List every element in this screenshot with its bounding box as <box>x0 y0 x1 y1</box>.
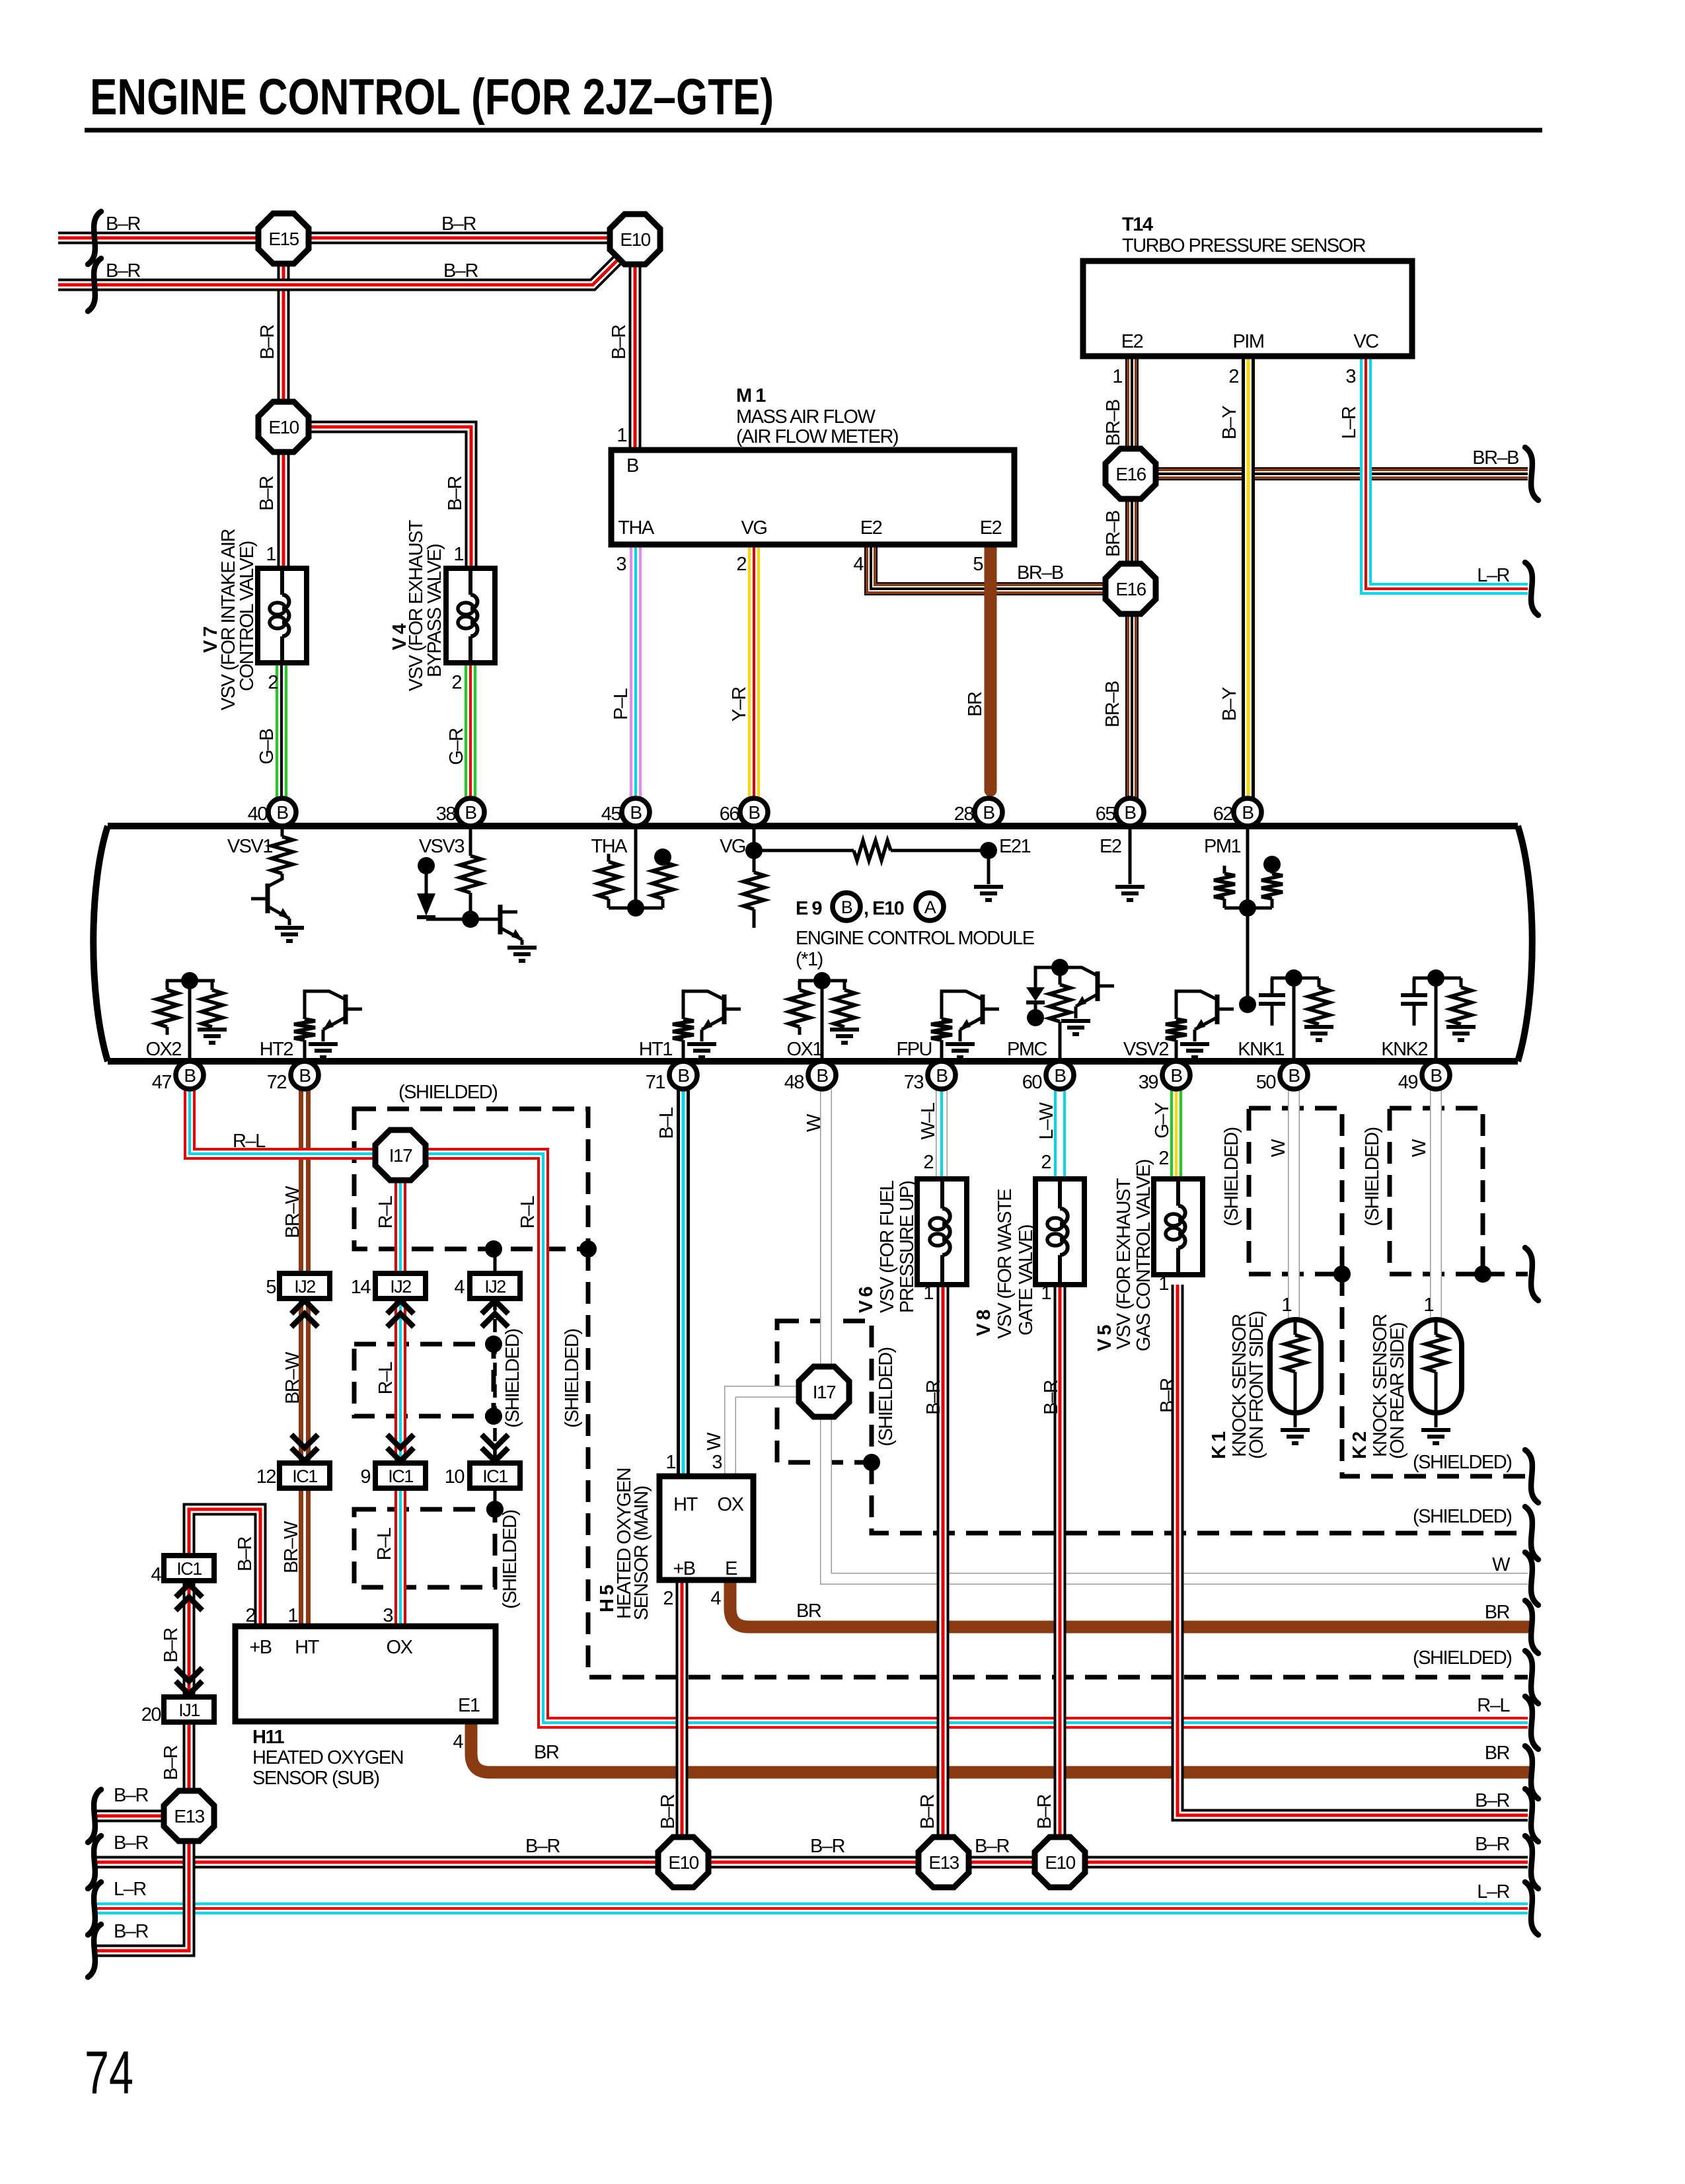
svg-text:2: 2 <box>245 1605 255 1626</box>
svg-text:B: B <box>748 802 760 823</box>
svg-text:2: 2 <box>268 672 278 693</box>
svg-text:M 1: M 1 <box>736 385 766 406</box>
svg-text:B–R: B–R <box>161 1628 182 1662</box>
svg-text:E21: E21 <box>999 836 1030 857</box>
svg-text:40: 40 <box>248 804 268 825</box>
svg-text:1: 1 <box>1158 1273 1168 1295</box>
svg-text:B–R: B–R <box>657 1794 679 1828</box>
svg-text:BR: BR <box>796 1600 821 1622</box>
svg-text:H11: H11 <box>252 1727 284 1748</box>
svg-text:1: 1 <box>266 544 276 565</box>
svg-text:2: 2 <box>1041 1152 1051 1173</box>
svg-text:W: W <box>804 1113 825 1132</box>
svg-text:12: 12 <box>256 1466 276 1487</box>
svg-text:39: 39 <box>1139 1072 1158 1093</box>
svg-text:IJ2: IJ2 <box>294 1277 315 1297</box>
svg-text:FPU: FPU <box>897 1039 932 1060</box>
svg-text:B: B <box>1124 802 1136 823</box>
svg-text:V 8: V 8 <box>973 1310 994 1336</box>
svg-text:VSV1: VSV1 <box>227 836 273 857</box>
svg-text:B–R: B–R <box>106 260 140 282</box>
svg-text:B: B <box>465 802 476 823</box>
svg-text:10: 10 <box>445 1466 465 1487</box>
svg-text:GATE VALVE): GATE VALVE) <box>1016 1225 1037 1336</box>
svg-text:B–R: B–R <box>810 1836 844 1857</box>
svg-text:L–R: L–R <box>1477 565 1509 586</box>
svg-text:(*1): (*1) <box>796 949 823 970</box>
svg-text:B–R: B–R <box>106 213 140 235</box>
svg-text:B–R: B–R <box>235 1536 256 1571</box>
svg-text:A: A <box>924 897 936 917</box>
svg-text:PRESSURE UP): PRESSURE UP) <box>897 1181 918 1313</box>
svg-text:BR–B: BR–B <box>1472 447 1518 469</box>
svg-text:HEATED OXYGEN: HEATED OXYGEN <box>252 1747 403 1768</box>
svg-text:IC1: IC1 <box>292 1466 317 1486</box>
svg-text:IC1: IC1 <box>388 1466 413 1486</box>
svg-text:W: W <box>1409 1139 1430 1157</box>
svg-text:1: 1 <box>1423 1295 1433 1316</box>
svg-text:E2: E2 <box>860 517 882 539</box>
svg-text:BR–W: BR–W <box>282 1186 303 1238</box>
svg-text:B: B <box>983 802 994 823</box>
svg-text:E2: E2 <box>1100 836 1121 857</box>
svg-text:VSV2: VSV2 <box>1123 1039 1169 1060</box>
svg-text:(SHIELDED): (SHIELDED) <box>1362 1127 1383 1226</box>
svg-text:65: 65 <box>1096 804 1115 825</box>
svg-text:BR: BR <box>965 692 986 717</box>
svg-text:B: B <box>626 455 638 476</box>
svg-text:B–R: B–R <box>257 324 278 359</box>
svg-text:E10: E10 <box>668 1852 698 1873</box>
svg-text:B–R: B–R <box>114 1785 148 1806</box>
svg-text:4: 4 <box>853 554 864 575</box>
svg-text:KNK2: KNK2 <box>1381 1039 1427 1060</box>
svg-text:B: B <box>841 897 852 917</box>
svg-text:B–R: B–R <box>525 1836 560 1857</box>
svg-text:HT2: HT2 <box>260 1039 293 1060</box>
svg-text:R–L: R–L <box>1477 1695 1510 1716</box>
svg-text:OX: OX <box>387 1637 413 1658</box>
svg-text:(SHIELDED): (SHIELDED) <box>1413 1452 1511 1473</box>
svg-text:B–R: B–R <box>256 476 278 510</box>
svg-text:E1: E1 <box>458 1695 480 1716</box>
svg-text:VSV3: VSV3 <box>419 836 465 857</box>
svg-text:5: 5 <box>973 554 983 575</box>
svg-text:2: 2 <box>923 1152 933 1173</box>
svg-text:R–L: R–L <box>375 1361 396 1394</box>
svg-text:R–L: R–L <box>374 1527 395 1560</box>
svg-text:28: 28 <box>954 804 974 825</box>
svg-text:2: 2 <box>736 554 746 575</box>
svg-text:MASS AIR FLOW: MASS AIR FLOW <box>736 406 876 428</box>
svg-text:Y–R: Y–R <box>729 687 750 721</box>
svg-text:V 5: V 5 <box>1094 1325 1115 1351</box>
svg-text:(AIR FLOW METER): (AIR FLOW METER) <box>736 426 898 447</box>
svg-text:5: 5 <box>266 1277 276 1298</box>
svg-text:VG: VG <box>741 517 767 539</box>
svg-text:BYPASS VALVE): BYPASS VALVE) <box>424 545 445 677</box>
svg-text:B–R: B–R <box>1157 1378 1178 1412</box>
svg-text:B: B <box>299 1065 311 1086</box>
svg-text:E: E <box>725 1558 737 1579</box>
svg-text:1: 1 <box>453 544 463 565</box>
svg-text:ENGINE CONTROL MODULE: ENGINE CONTROL MODULE <box>796 928 1035 949</box>
svg-text:(SHIELDED): (SHIELDED) <box>398 1082 497 1103</box>
svg-text:B–R: B–R <box>1041 1380 1062 1414</box>
svg-text:48: 48 <box>784 1072 804 1093</box>
svg-text:B: B <box>1430 1065 1442 1086</box>
svg-text:VG: VG <box>720 836 745 857</box>
svg-text:49: 49 <box>1398 1072 1418 1093</box>
svg-text:E13: E13 <box>174 1806 204 1826</box>
svg-text:38: 38 <box>436 804 456 825</box>
svg-text:L–R: L–R <box>1477 1881 1509 1902</box>
svg-text:R–L: R–L <box>517 1195 539 1228</box>
svg-text:B–Y: B–Y <box>1219 406 1240 439</box>
svg-text:PMC: PMC <box>1007 1039 1047 1060</box>
svg-text:+B: +B <box>249 1637 271 1658</box>
svg-text:E2: E2 <box>980 517 1002 539</box>
svg-text:B: B <box>936 1065 948 1086</box>
svg-text:1: 1 <box>1281 1295 1291 1316</box>
svg-text:(SHIELDED): (SHIELDED) <box>1413 1647 1511 1669</box>
svg-text:72: 72 <box>267 1072 287 1093</box>
svg-text:4: 4 <box>453 1731 463 1752</box>
svg-text:1: 1 <box>617 425 626 446</box>
svg-text:50: 50 <box>1256 1072 1276 1093</box>
svg-text:E10: E10 <box>1045 1852 1075 1873</box>
svg-text:BR: BR <box>534 1742 559 1763</box>
svg-text:2: 2 <box>451 672 461 693</box>
svg-text:(ON FRONT SIDE): (ON FRONT SIDE) <box>1246 1312 1267 1459</box>
svg-text:G–R: G–R <box>446 728 467 765</box>
svg-text:VSV (FOR WASTE: VSV (FOR WASTE <box>994 1189 1016 1339</box>
svg-text:B: B <box>630 802 642 823</box>
svg-text:1: 1 <box>923 1283 933 1304</box>
svg-text:B–R: B–R <box>609 324 630 359</box>
svg-text:E10: E10 <box>268 417 299 437</box>
svg-text:E16: E16 <box>1115 579 1146 599</box>
svg-text:BR–W: BR–W <box>281 1521 302 1573</box>
svg-text:4: 4 <box>710 1588 721 1609</box>
svg-text:G–B: G–B <box>256 729 278 765</box>
svg-text:(SHIELDED): (SHIELDED) <box>502 1329 523 1427</box>
svg-text:(SHIELDED): (SHIELDED) <box>1221 1127 1242 1226</box>
svg-text:B–R: B–R <box>161 1745 182 1780</box>
svg-text:74: 74 <box>85 2039 133 2107</box>
svg-text:, E10: , E10 <box>864 898 904 919</box>
svg-text:45: 45 <box>601 804 621 825</box>
svg-text:B–Y: B–Y <box>1219 687 1240 721</box>
svg-text:BR–B: BR–B <box>1017 562 1063 584</box>
svg-text:IJ2: IJ2 <box>484 1277 505 1297</box>
svg-text:2: 2 <box>1228 366 1238 387</box>
svg-text:E10: E10 <box>620 229 650 250</box>
svg-text:KNK1: KNK1 <box>1238 1039 1284 1060</box>
svg-text:V 6: V 6 <box>856 1287 877 1313</box>
svg-text:B: B <box>1242 802 1254 823</box>
svg-text:B–R: B–R <box>975 1836 1009 1857</box>
svg-text:(ON REAR SIDE): (ON REAR SIDE) <box>1387 1323 1408 1459</box>
svg-text:1: 1 <box>1041 1283 1051 1304</box>
svg-text:3: 3 <box>383 1605 393 1626</box>
svg-text:TURBO PRESSURE SENSOR: TURBO PRESSURE SENSOR <box>1122 235 1366 256</box>
svg-text:PIM: PIM <box>1232 331 1263 352</box>
svg-text:B–R: B–R <box>114 1832 148 1854</box>
svg-text:B: B <box>1288 1065 1300 1086</box>
svg-text:IJ2: IJ2 <box>390 1277 411 1297</box>
svg-text:VC: VC <box>1353 331 1378 352</box>
svg-text:4: 4 <box>454 1277 465 1298</box>
svg-text:B–R: B–R <box>441 213 476 235</box>
svg-text:THA: THA <box>591 836 628 857</box>
svg-text:GAS CONTROL VALVE): GAS CONTROL VALVE) <box>1133 1160 1154 1351</box>
svg-text:W–L: W–L <box>918 1102 939 1140</box>
svg-text:BR–B: BR–B <box>1102 681 1123 728</box>
svg-text:R–L: R–L <box>233 1131 266 1152</box>
svg-text:P–L: P–L <box>611 688 632 720</box>
svg-text:W: W <box>1268 1139 1289 1157</box>
svg-text:B–R: B–R <box>1475 1834 1509 1855</box>
svg-text:BR–B: BR–B <box>1103 400 1124 446</box>
svg-text:IC1: IC1 <box>482 1466 507 1486</box>
svg-text:K 1: K 1 <box>1209 1431 1230 1459</box>
svg-text:T14: T14 <box>1122 214 1153 235</box>
svg-text:60: 60 <box>1022 1072 1042 1093</box>
svg-text:BR–W: BR–W <box>282 1351 303 1404</box>
svg-text:71: 71 <box>646 1072 665 1093</box>
svg-text:B–R: B–R <box>917 1794 938 1828</box>
svg-text:IJ1: IJ1 <box>178 1700 200 1720</box>
svg-text:B–R: B–R <box>1034 1794 1055 1828</box>
svg-text:B–R: B–R <box>1475 1790 1509 1811</box>
svg-text:OX: OX <box>718 1494 744 1515</box>
svg-text:I17: I17 <box>813 1382 836 1402</box>
svg-text:BR–B: BR–B <box>1103 511 1124 557</box>
svg-text:OX2: OX2 <box>145 1039 181 1060</box>
svg-text:(SHIELDED): (SHIELDED) <box>1413 1506 1511 1527</box>
svg-text:VSV (FOR EXHAUST: VSV (FOR EXHAUST <box>1113 1178 1135 1349</box>
svg-text:B: B <box>677 1065 689 1086</box>
svg-text:HT1: HT1 <box>639 1039 673 1060</box>
svg-text:3: 3 <box>712 1452 722 1473</box>
svg-text:BR: BR <box>1485 1602 1510 1623</box>
svg-text:(SHIELDED): (SHIELDED) <box>500 1510 521 1608</box>
svg-text:B–R: B–R <box>445 476 466 510</box>
svg-text:IC1: IC1 <box>176 1559 202 1579</box>
svg-text:E2: E2 <box>1121 331 1143 352</box>
svg-text:3: 3 <box>616 554 626 575</box>
svg-text:B–R: B–R <box>923 1380 944 1414</box>
svg-text:THA: THA <box>618 517 655 539</box>
svg-text:(SHIELDED): (SHIELDED) <box>876 1347 897 1446</box>
svg-text:CONTROL VALVE): CONTROL VALVE) <box>237 541 258 691</box>
svg-text:73: 73 <box>904 1072 924 1093</box>
svg-text:2: 2 <box>663 1588 673 1609</box>
svg-text:E16: E16 <box>1115 464 1146 484</box>
svg-text:HT: HT <box>295 1637 319 1658</box>
svg-text:SENSOR (MAIN): SENSOR (MAIN) <box>631 1486 652 1620</box>
svg-text:14: 14 <box>351 1277 371 1298</box>
svg-text:4: 4 <box>151 1564 161 1585</box>
svg-text:L–R: L–R <box>114 1879 146 1900</box>
svg-text:OX1: OX1 <box>786 1039 822 1060</box>
svg-text:L–R: L–R <box>1339 406 1360 439</box>
svg-text:SENSOR (SUB): SENSOR (SUB) <box>252 1768 379 1789</box>
svg-text:W: W <box>704 1432 725 1450</box>
svg-text:20: 20 <box>141 1704 161 1725</box>
svg-text:VSV (FOR FUEL: VSV (FOR FUEL <box>877 1180 898 1313</box>
svg-text:B: B <box>816 1065 828 1086</box>
svg-text:B: B <box>1170 1065 1182 1086</box>
svg-text:W: W <box>1492 1554 1511 1575</box>
svg-text:BR: BR <box>1485 1743 1510 1764</box>
svg-text:E 9: E 9 <box>796 898 822 919</box>
svg-text:L–W: L–W <box>1036 1102 1057 1139</box>
svg-text:B: B <box>276 802 288 823</box>
svg-text:47: 47 <box>152 1072 172 1093</box>
svg-text:66: 66 <box>720 804 739 825</box>
svg-text:B–L: B–L <box>656 1107 677 1139</box>
svg-text:B: B <box>1054 1065 1066 1086</box>
svg-text:3: 3 <box>1345 366 1355 387</box>
svg-text:1: 1 <box>665 1452 675 1473</box>
svg-text:9: 9 <box>360 1466 370 1487</box>
svg-text:1: 1 <box>287 1605 297 1626</box>
svg-text:B–R: B–R <box>114 1921 148 1942</box>
svg-text:ENGINE CONTROL (FOR 2JZ–GTE): ENGINE CONTROL (FOR 2JZ–GTE) <box>90 69 774 126</box>
svg-text:E13: E13 <box>928 1852 959 1873</box>
svg-text:R–L: R–L <box>375 1195 396 1228</box>
svg-text:62: 62 <box>1213 804 1233 825</box>
svg-text:B: B <box>184 1065 196 1086</box>
svg-text:2: 2 <box>1158 1148 1168 1169</box>
svg-text:E15: E15 <box>268 229 299 249</box>
svg-text:(SHIELDED): (SHIELDED) <box>562 1329 583 1427</box>
svg-text:B–R: B–R <box>443 260 478 282</box>
svg-text:I17: I17 <box>389 1145 412 1166</box>
svg-text:PM1: PM1 <box>1204 836 1241 857</box>
svg-text:1: 1 <box>1112 366 1122 387</box>
svg-text:K 2: K 2 <box>1349 1432 1370 1459</box>
svg-text:G–Y: G–Y <box>1152 1102 1173 1139</box>
svg-text:HT: HT <box>673 1494 698 1515</box>
svg-text:+B: +B <box>673 1558 694 1579</box>
